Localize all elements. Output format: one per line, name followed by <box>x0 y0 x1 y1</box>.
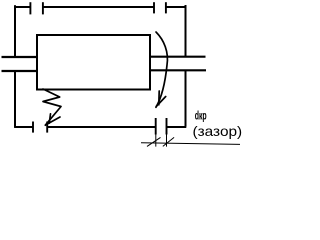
svg-text:(зазор): (зазор) <box>193 124 243 139</box>
svg-text:dкр: dкр <box>195 110 207 123</box>
